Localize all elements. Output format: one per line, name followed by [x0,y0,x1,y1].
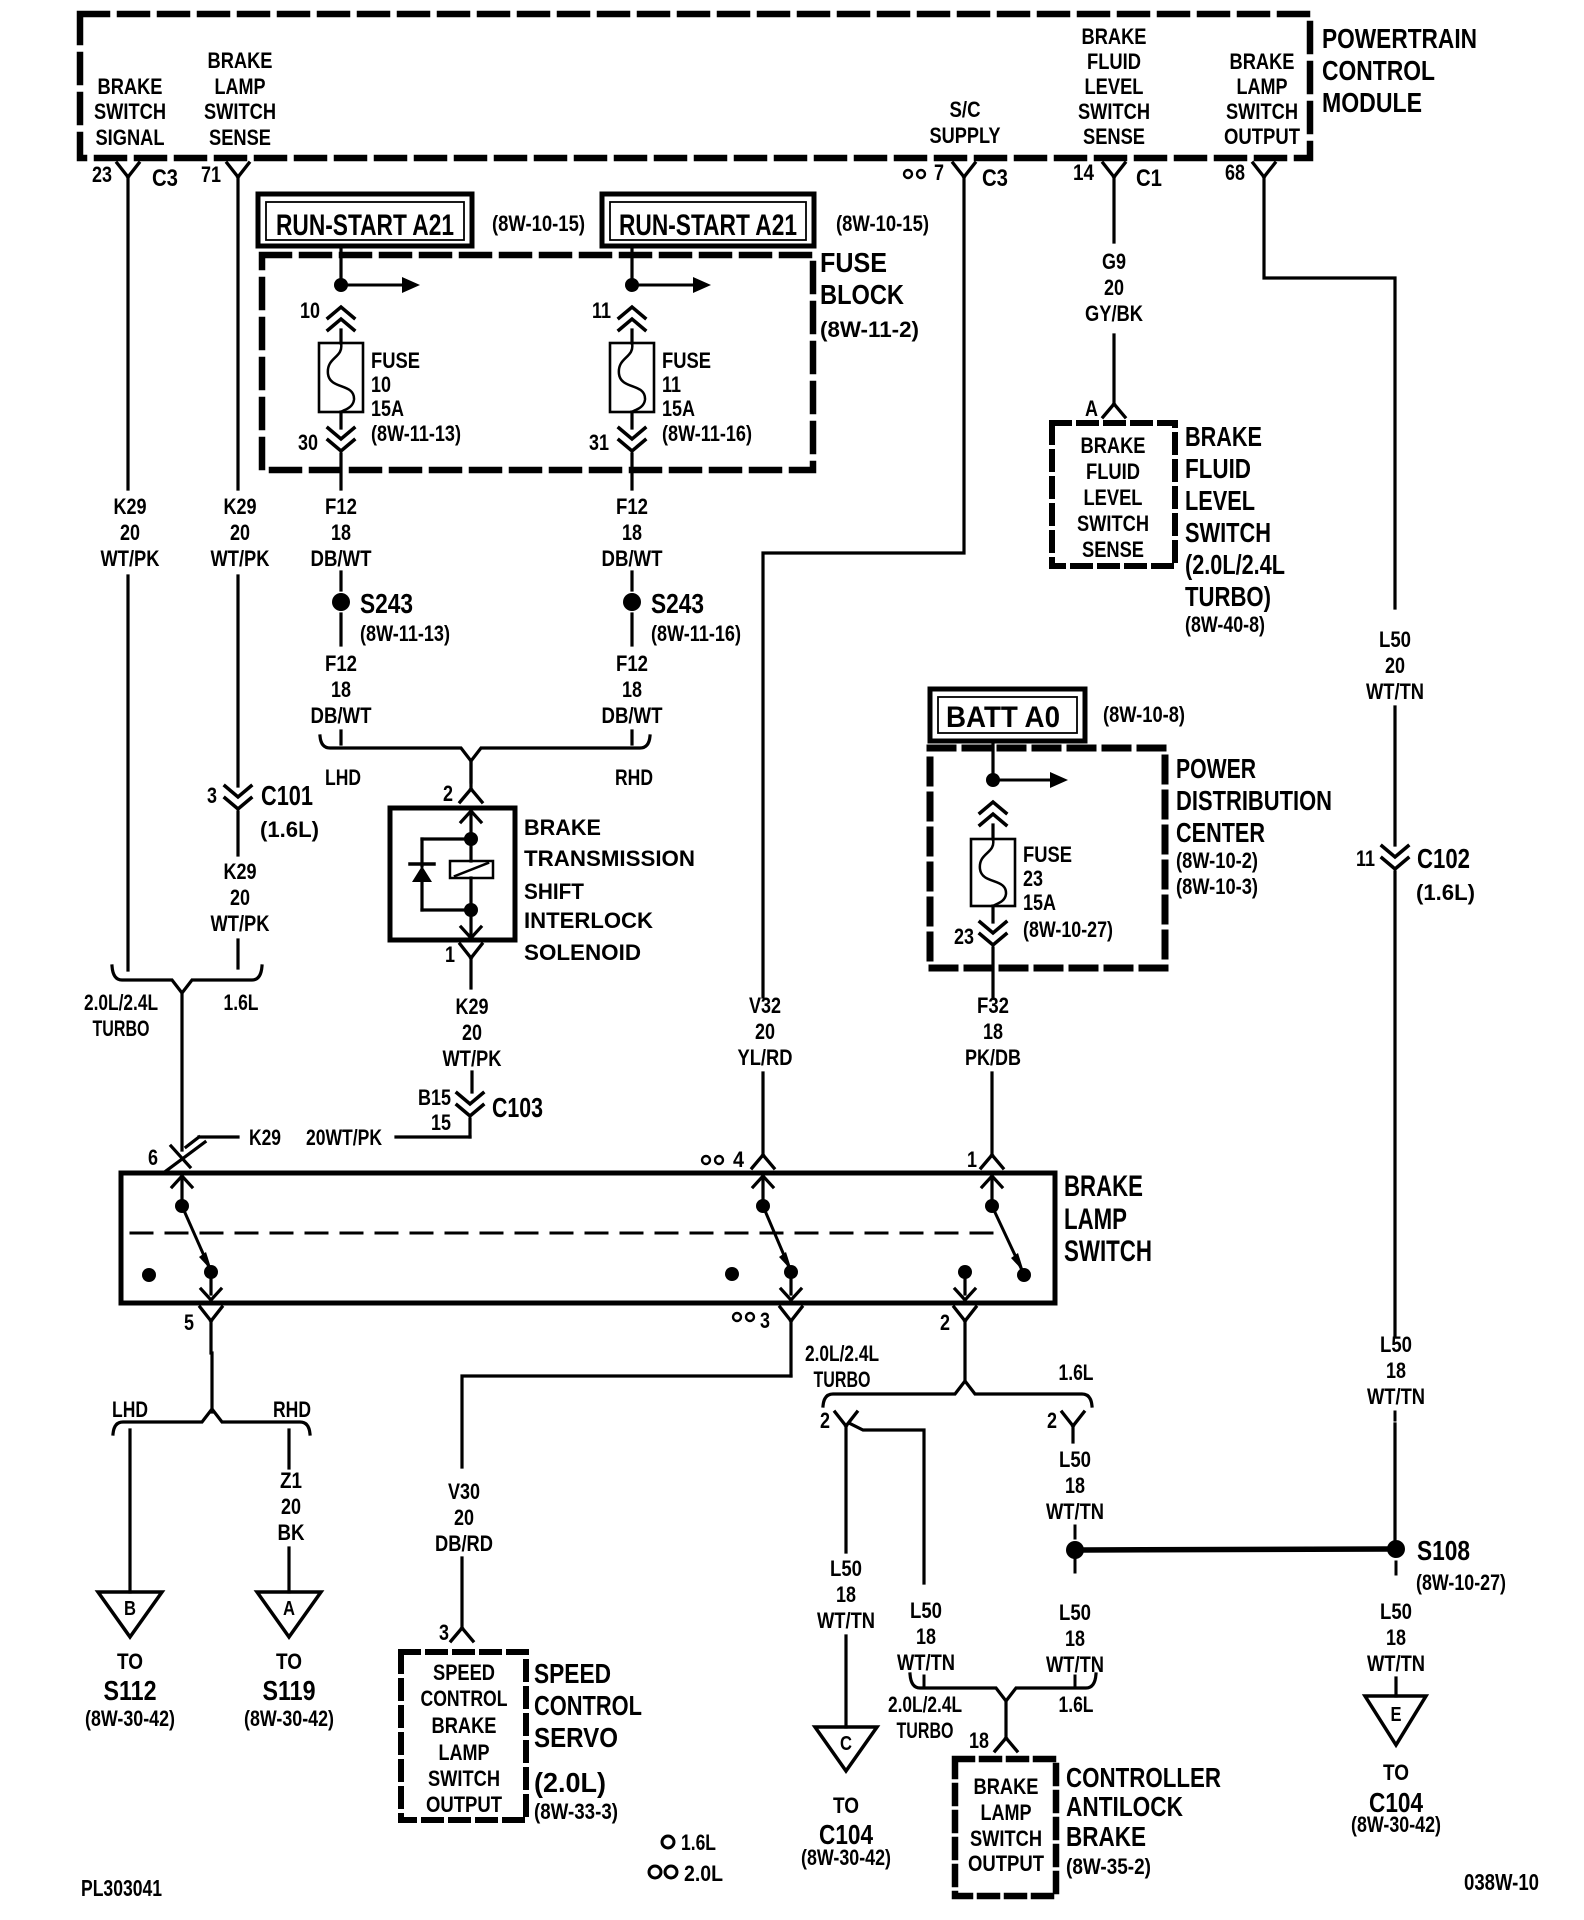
svg-text:LAMP: LAMP [215,74,266,99]
svg-text:(8W-11-16): (8W-11-16) [662,421,752,446]
svg-text:WT/TN: WT/TN [817,1608,875,1633]
svg-text:WT/TN: WT/TN [1046,1499,1104,1524]
wire LHD to triangle B [128,1430,131,1592]
svg-text:(8W-10-3): (8W-10-3) [1176,874,1258,899]
svg-text:(8W-10-27): (8W-10-27) [1023,917,1113,942]
svg-text:BRAKE: BRAKE [974,1774,1039,1799]
branch 1.6L pin 2 fork [1047,1408,1084,1442]
svg-text:LAMP: LAMP [1237,74,1288,99]
wire to S108 [1394,1412,1397,1542]
svg-text:RHD: RHD [615,765,653,790]
svg-text:5: 5 [184,1310,194,1335]
svg-text:18: 18 [1386,1625,1406,1650]
svg-text:SWITCH: SWITCH [204,99,276,124]
svg-text:LEVEL: LEVEL [1085,74,1144,99]
wire label L50 18 WT/TN branch d [1046,1600,1104,1677]
title POWER DISTRIBUTION CENTER [1176,753,1332,899]
svg-text:POWERTRAIN: POWERTRAIN [1322,23,1477,54]
pin 4 connector with 2.0L marks [702,1147,774,1172]
wire G9 from pin 14 [1112,177,1115,242]
svg-text:(8W-10-2): (8W-10-2) [1176,848,1258,873]
svg-text:2.0L/2.4L: 2.0L/2.4L [805,1341,879,1366]
wire label F32 18 PK/DB [965,993,1021,1070]
triangle C off-page to C104 [801,1727,891,1870]
pin 11 chevron [592,298,645,343]
pin 10 chevron [300,298,354,343]
svg-text:BK: BK [278,1520,305,1545]
relay coil [450,846,493,903]
svg-text:15A: 15A [371,396,404,421]
title CONTROLLER ANTILOCK BRAKE (8W-35-2) [1066,1762,1221,1879]
svg-text:S112: S112 [104,1675,157,1706]
controller antilock brake dashed box [955,1759,1056,1896]
svg-text:L50: L50 [830,1556,862,1581]
svg-text:CONTROL: CONTROL [421,1686,508,1711]
fuse 23 15A [971,839,1113,942]
wire to C101 [236,576,239,786]
svg-text:F12: F12 [325,494,357,519]
connector C3 pin 23 [92,162,178,192]
wire L50 down from pin 2 left branch [844,1425,847,1552]
svg-text:FLUID: FLUID [1185,453,1251,484]
svg-text:POWER: POWER [1176,753,1256,784]
svg-text:SHIFT: SHIFT [524,879,585,904]
svg-text:(2.0L): (2.0L) [534,1767,606,1798]
svg-text:S108: S108 [1417,1535,1470,1566]
wire to connector C103 [470,1072,473,1092]
connector pin 71 [201,162,249,187]
svg-text:10: 10 [371,372,391,397]
svg-text:1.6L: 1.6L [681,1830,716,1855]
svg-text:S/C: S/C [950,97,981,122]
svg-text:DB/WT: DB/WT [311,546,372,571]
svg-text:1.6L: 1.6L [1059,1692,1094,1717]
svg-text:3: 3 [207,783,217,808]
wire label F12 18 DB/WT left lower [311,651,372,728]
svg-text:B15: B15 [418,1085,451,1110]
connector C101 (1.6L) [207,780,319,842]
svg-text:SWITCH: SWITCH [428,1766,500,1791]
solenoid pin 1 fork [445,942,482,988]
wire label F12 18 DB/WT right lower [602,651,663,728]
PCM label BRAKE FLUID LEVEL SWITCH SENSE [1078,24,1150,149]
svg-text:WT/PK: WT/PK [101,546,160,571]
svg-text:C101: C101 [261,780,313,811]
svg-text:OUTPUT: OUTPUT [1224,124,1300,149]
svg-text:FUSE: FUSE [662,348,711,373]
svg-text:PK/DB: PK/DB [965,1045,1021,1070]
svg-text:SPEED: SPEED [433,1660,495,1685]
svg-text:C1: C1 [1136,165,1162,192]
svg-text:(8W-10-15): (8W-10-15) [836,211,929,236]
svg-text:SWITCH: SWITCH [1077,511,1149,536]
svg-text:23: 23 [92,162,112,187]
svg-text:E: E [1391,1704,1402,1726]
junction dot with feed arrow left [334,277,420,293]
connector C103 [418,1085,543,1135]
svg-text:OUTPUT: OUTPUT [426,1792,502,1817]
wire label V30 20 DB/RD [435,1479,493,1556]
svg-text:1: 1 [967,1147,977,1172]
svg-text:2.0L/2.4L: 2.0L/2.4L [84,990,158,1015]
svg-text:4: 4 [733,1147,745,1172]
wire label L50 18 WT/TN branch a [817,1556,875,1633]
svg-text:18: 18 [622,520,642,545]
svg-text:V30: V30 [448,1479,480,1504]
svg-text:BRAKE: BRAKE [208,48,273,73]
svg-text:FUSE: FUSE [1023,842,1072,867]
diode branch [410,839,471,910]
svg-text:20: 20 [230,520,250,545]
svg-text:BRAKE: BRAKE [1066,1821,1146,1852]
pin 23 chevron [954,906,1006,949]
svg-text:LHD: LHD [112,1397,148,1422]
svg-text:BATT A0: BATT A0 [946,701,1060,734]
legend 1.6L [662,1830,716,1855]
svg-text:RUN-START A21: RUN-START A21 [276,209,454,242]
svg-text:CENTER: CENTER [1176,817,1265,848]
svg-text:WT/PK: WT/PK [211,546,270,571]
svg-text:(8W-10-15): (8W-10-15) [492,211,585,236]
pin 1 connector [967,1147,1003,1172]
wire from pin 5 [210,1353,213,1412]
pin 3 fork at servo [439,1620,473,1645]
svg-text:F32: F32 [977,993,1009,1018]
switch pole 3 [955,1176,1031,1300]
svg-text:LHD: LHD [325,765,361,790]
svg-text:OUTPUT: OUTPUT [968,1851,1044,1876]
svg-text:K29: K29 [224,859,257,884]
svg-text:FUSE: FUSE [820,247,887,278]
fuse 10 15A [319,343,461,446]
connector C1 pin 14 [1073,160,1162,192]
svg-text:(8W-40-8): (8W-40-8) [1185,612,1265,637]
svg-text:YL/RD: YL/RD [738,1045,793,1070]
junction dot with feed arrow in PDC [986,772,1068,788]
part number PL303041 [81,1875,162,1901]
svg-text:A: A [283,1598,295,1620]
svg-text:BRAKE: BRAKE [98,74,163,99]
wire label K29 20 WT/PK left [101,494,160,571]
svg-text:18: 18 [836,1582,856,1607]
svg-text:INTERLOCK: INTERLOCK [524,908,653,933]
title BRAKE FLUID LEVEL SWITCH (2.0L/2.4L TURBO) [1185,421,1285,637]
svg-text:Z1: Z1 [280,1468,302,1493]
pin A fork [1085,396,1125,421]
wire below C101 [236,812,239,855]
svg-text:11: 11 [662,372,681,397]
svg-text:L50: L50 [1059,1600,1091,1625]
svg-text:FLUID: FLUID [1087,49,1141,74]
svg-text:(8W-10-8): (8W-10-8) [1103,702,1185,727]
wire V32 to pin 4 [761,1073,764,1156]
svg-text:20: 20 [1104,275,1124,300]
svg-text:LAMP: LAMP [981,1800,1032,1825]
wire K29 from pin 71 [236,177,239,489]
svg-text:BRAKE: BRAKE [1081,433,1146,458]
svg-text:SWITCH: SWITCH [94,99,166,124]
svg-text:F12: F12 [325,651,357,676]
svg-text:18: 18 [1065,1626,1085,1651]
svg-text:11: 11 [1356,846,1375,871]
svg-text:BRAKE: BRAKE [1064,1170,1143,1203]
svg-text:SWITCH: SWITCH [1185,517,1271,548]
svg-text:18: 18 [1065,1473,1085,1498]
svg-text:(8W-11-2): (8W-11-2) [820,317,919,342]
svg-text:11: 11 [592,298,611,323]
wire label K29 20 WT/PK below solenoid [443,994,502,1071]
svg-text:C102: C102 [1417,843,1470,874]
svg-text:(8W-30-42): (8W-30-42) [1351,1812,1441,1837]
wire tap to right branch [851,1424,924,1583]
wire V30 down [460,1558,463,1626]
svg-text:TURBO: TURBO [814,1367,871,1392]
sheet number 038W-10 [1464,1869,1539,1895]
svg-text:1.6L: 1.6L [224,990,259,1015]
PCM label BRAKE LAMP SWITCH OUTPUT [1224,49,1300,149]
svg-text:L50: L50 [1059,1447,1091,1472]
svg-text:(8W-33-3): (8W-33-3) [534,1799,618,1824]
svg-text:BRAKE: BRAKE [432,1713,497,1738]
svg-text:(2.0L/2.4L: (2.0L/2.4L [1185,549,1285,580]
brake lamp switch box [121,1173,1055,1303]
svg-text:TO: TO [276,1649,302,1674]
svg-text:RUN-START A21: RUN-START A21 [619,209,797,242]
svg-text:3: 3 [439,1620,449,1645]
wire F32 to pin 1 [990,1073,993,1156]
connector pin 68 [1225,160,1275,185]
svg-text:(8W-30-42): (8W-30-42) [85,1706,175,1731]
pin 30 chevron [298,412,354,455]
svg-text:SENSE: SENSE [1082,537,1144,562]
svg-text:2: 2 [820,1408,830,1433]
title FUSE BLOCK (8W-11-2) [820,247,919,342]
BATT A0 feed box [930,689,1185,741]
switch pole 1 [142,1176,221,1300]
svg-text:CONTROL: CONTROL [1322,55,1435,86]
brace merging into CAB pin 18 [888,1674,1096,1743]
svg-text:18: 18 [622,677,642,702]
svg-text:CONTROL: CONTROL [534,1690,642,1721]
svg-text:15A: 15A [1023,890,1056,915]
PCM label BRAKE SWITCH SIGNAL [94,74,166,150]
svg-text:18: 18 [1386,1358,1406,1383]
svg-text:15A: 15A [662,396,695,421]
svg-text:F12: F12 [616,494,648,519]
svg-text:SIGNAL: SIGNAL [96,125,165,150]
wire from RUN-START right into fuse block [630,246,633,285]
pin 3 fork with 2.0L marks [733,1307,802,1376]
svg-text:DB/WT: DB/WT [311,703,372,728]
wire to merge brace [236,940,239,968]
svg-text:S243: S243 [360,588,413,619]
svg-text:F12: F12 [616,651,648,676]
wire label L50 20 WT/TN [1366,627,1424,704]
svg-text:WT/PK: WT/PK [443,1046,502,1071]
svg-text:TURBO: TURBO [93,1016,150,1041]
svg-text:(8W-35-2): (8W-35-2) [1066,1854,1151,1879]
svg-text:(1.6L): (1.6L) [1416,880,1475,905]
svg-text:TURBO): TURBO) [1185,581,1271,612]
svg-text:RHD: RHD [273,1397,311,1422]
wire F12 exits fuse block left [339,454,342,489]
svg-text:3: 3 [760,1308,770,1333]
svg-text:10: 10 [300,298,320,323]
svg-text:K29: K29 [114,494,147,519]
wire F12 exits fuse block right [630,454,633,489]
svg-text:WT/TN: WT/TN [897,1650,955,1675]
title BRAKE TRANSMISSION SHIFT INTERLOCK SOLENOID [524,815,695,965]
svg-text:G9: G9 [1102,249,1126,274]
wire label F12 18 DB/WT right upper [602,494,663,571]
svg-text:SPEED: SPEED [534,1658,611,1689]
brace merging 2.0L/2.4L TURBO and 1.6L wires [84,966,262,1041]
svg-text:LEVEL: LEVEL [1185,485,1255,516]
stub to LHD brace [339,731,342,744]
svg-text:C3: C3 [152,165,178,192]
wire F32 exits PDC [991,948,994,997]
svg-text:WT/TN: WT/TN [1367,1384,1425,1409]
wire L50 down right side [1393,872,1396,1336]
svg-text:BRAKE: BRAKE [1230,49,1295,74]
power distribution center dashed box [930,748,1165,968]
svg-text:B: B [124,1598,136,1620]
triangle B off-page to S112 [85,1592,175,1731]
svg-text:(1.6L): (1.6L) [260,817,319,842]
wire Z1 to triangle A [287,1548,290,1592]
svg-text:2: 2 [443,781,453,806]
junction dot with feed arrow right [625,277,711,293]
svg-text:2.0L: 2.0L [684,1861,723,1886]
fuse 11 15A [610,343,752,446]
svg-text:6: 6 [148,1145,158,1170]
svg-text:20: 20 [1385,653,1405,678]
PCM label S/C SUPPLY [930,97,1001,148]
svg-text:S243: S243 [651,588,704,619]
svg-text:WT/TN: WT/TN [1367,1651,1425,1676]
wire to triangle E [1394,1678,1397,1696]
wire label G9 20 GY/BK [1085,249,1143,326]
RUN-START A21 feed box right [602,194,929,246]
CAB pin 18 fork [969,1700,1017,1753]
svg-text:038W-10: 038W-10 [1464,1869,1539,1895]
wire to triangle C [844,1636,847,1727]
brace splitting 2.0L and 1.6L branches [805,1341,1094,1406]
svg-text:LEVEL: LEVEL [1084,485,1143,510]
fuse block dashed box [262,255,813,470]
svg-text:SOLENOID: SOLENOID [524,940,641,965]
wire label V32 20 YL/RD [738,993,793,1070]
brake transmission shift interlock solenoid box [390,808,515,940]
svg-text:14: 14 [1073,160,1095,185]
RUN-START A21 feed box left [258,194,585,246]
chevron into fuse 23 [980,802,1006,839]
svg-text:20: 20 [120,520,140,545]
wire from C103 to brake lamp switch pin 6 tap [186,1119,470,1150]
svg-text:DB/RD: DB/RD [435,1531,493,1556]
brace merging LHD and RHD wires [320,736,653,790]
svg-text:23: 23 [1023,866,1043,891]
wire from BATT A0 into PDC [991,741,994,780]
svg-text:20: 20 [281,1494,301,1519]
switch pole 2 [725,1176,801,1300]
branch 2.0L pin 2 fork [820,1408,857,1433]
wire K29 continues [126,576,129,970]
svg-text:LAMP: LAMP [439,1740,490,1765]
splice junction dot left [1066,1541,1084,1559]
svg-text:20: 20 [755,1019,775,1044]
svg-text:S119: S119 [263,1675,316,1706]
wire label L50 18 WT/TN branch b [897,1598,955,1675]
svg-text:2.0L/2.4L: 2.0L/2.4L [888,1692,962,1717]
wire label Z1 20 BK [278,1468,305,1545]
svg-text:PL303041: PL303041 [81,1875,162,1901]
svg-text:C103: C103 [492,1092,543,1123]
wire K29 from pin 23 [126,177,129,489]
svg-text:18: 18 [331,520,351,545]
svg-text:18: 18 [916,1624,936,1649]
svg-text:7: 7 [934,160,944,185]
wire label L50 18 WT/TN right [1367,1332,1425,1409]
svg-text:L50: L50 [1380,1599,1412,1624]
svg-text:WT/PK: WT/PK [211,911,270,936]
connector C102 (1.6L) [1356,843,1475,905]
title BRAKE LAMP SWITCH [1064,1170,1152,1268]
svg-text:2: 2 [1047,1408,1057,1433]
svg-text:SWITCH: SWITCH [1078,99,1150,124]
svg-text:15: 15 [431,1110,451,1135]
svg-text:C: C [840,1733,852,1755]
brake fluid level switch dashed box [1052,423,1175,566]
wire label K29 20 WT/PK third [211,859,270,936]
splice S243 right [623,572,741,646]
svg-text:K29: K29 [224,494,257,519]
svg-text:23: 23 [954,924,974,949]
stub to RHD brace [630,731,633,744]
svg-text:FLUID: FLUID [1086,459,1140,484]
title POWERTRAIN CONTROL MODULE [1322,23,1477,118]
svg-text:K29: K29 [249,1125,281,1150]
solenoid pin 2 fork [443,760,482,806]
svg-text:LAMP: LAMP [1064,1203,1127,1236]
wire from RUN-START left into fuse block [339,246,342,285]
title SPEED CONTROL SERVO (2.0L) [534,1658,642,1824]
svg-text:(8W-11-16): (8W-11-16) [651,621,741,646]
powertrain control module dashed box [80,14,1310,158]
svg-text:1: 1 [445,942,455,967]
svg-text:20: 20 [454,1505,474,1530]
svg-text:SENSE: SENSE [1083,124,1145,149]
wire G9 to switch [1112,335,1115,402]
dash to CAB brace right [1074,1676,1077,1686]
svg-text:31: 31 [589,430,609,455]
svg-text:MODULE: MODULE [1322,87,1422,118]
svg-text:C3: C3 [982,165,1008,192]
svg-text:SUPPLY: SUPPLY [930,123,1001,148]
pin 6 slanted connector [148,1142,205,1171]
svg-text:BRAKE: BRAKE [524,815,601,840]
svg-text:SENSE: SENSE [209,125,271,150]
svg-text:20WT/PK: 20WT/PK [306,1125,382,1150]
wire to C102 [1393,707,1396,845]
svg-text:(8W-30-42): (8W-30-42) [801,1845,891,1870]
svg-text:CONTROLLER: CONTROLLER [1066,1762,1221,1793]
svg-text:20: 20 [230,885,250,910]
dash to CAB brace left [923,1676,926,1686]
svg-text:DB/WT: DB/WT [602,546,663,571]
svg-text:ANTILOCK: ANTILOCK [1066,1791,1183,1822]
pin 2 fork [940,1307,976,1382]
